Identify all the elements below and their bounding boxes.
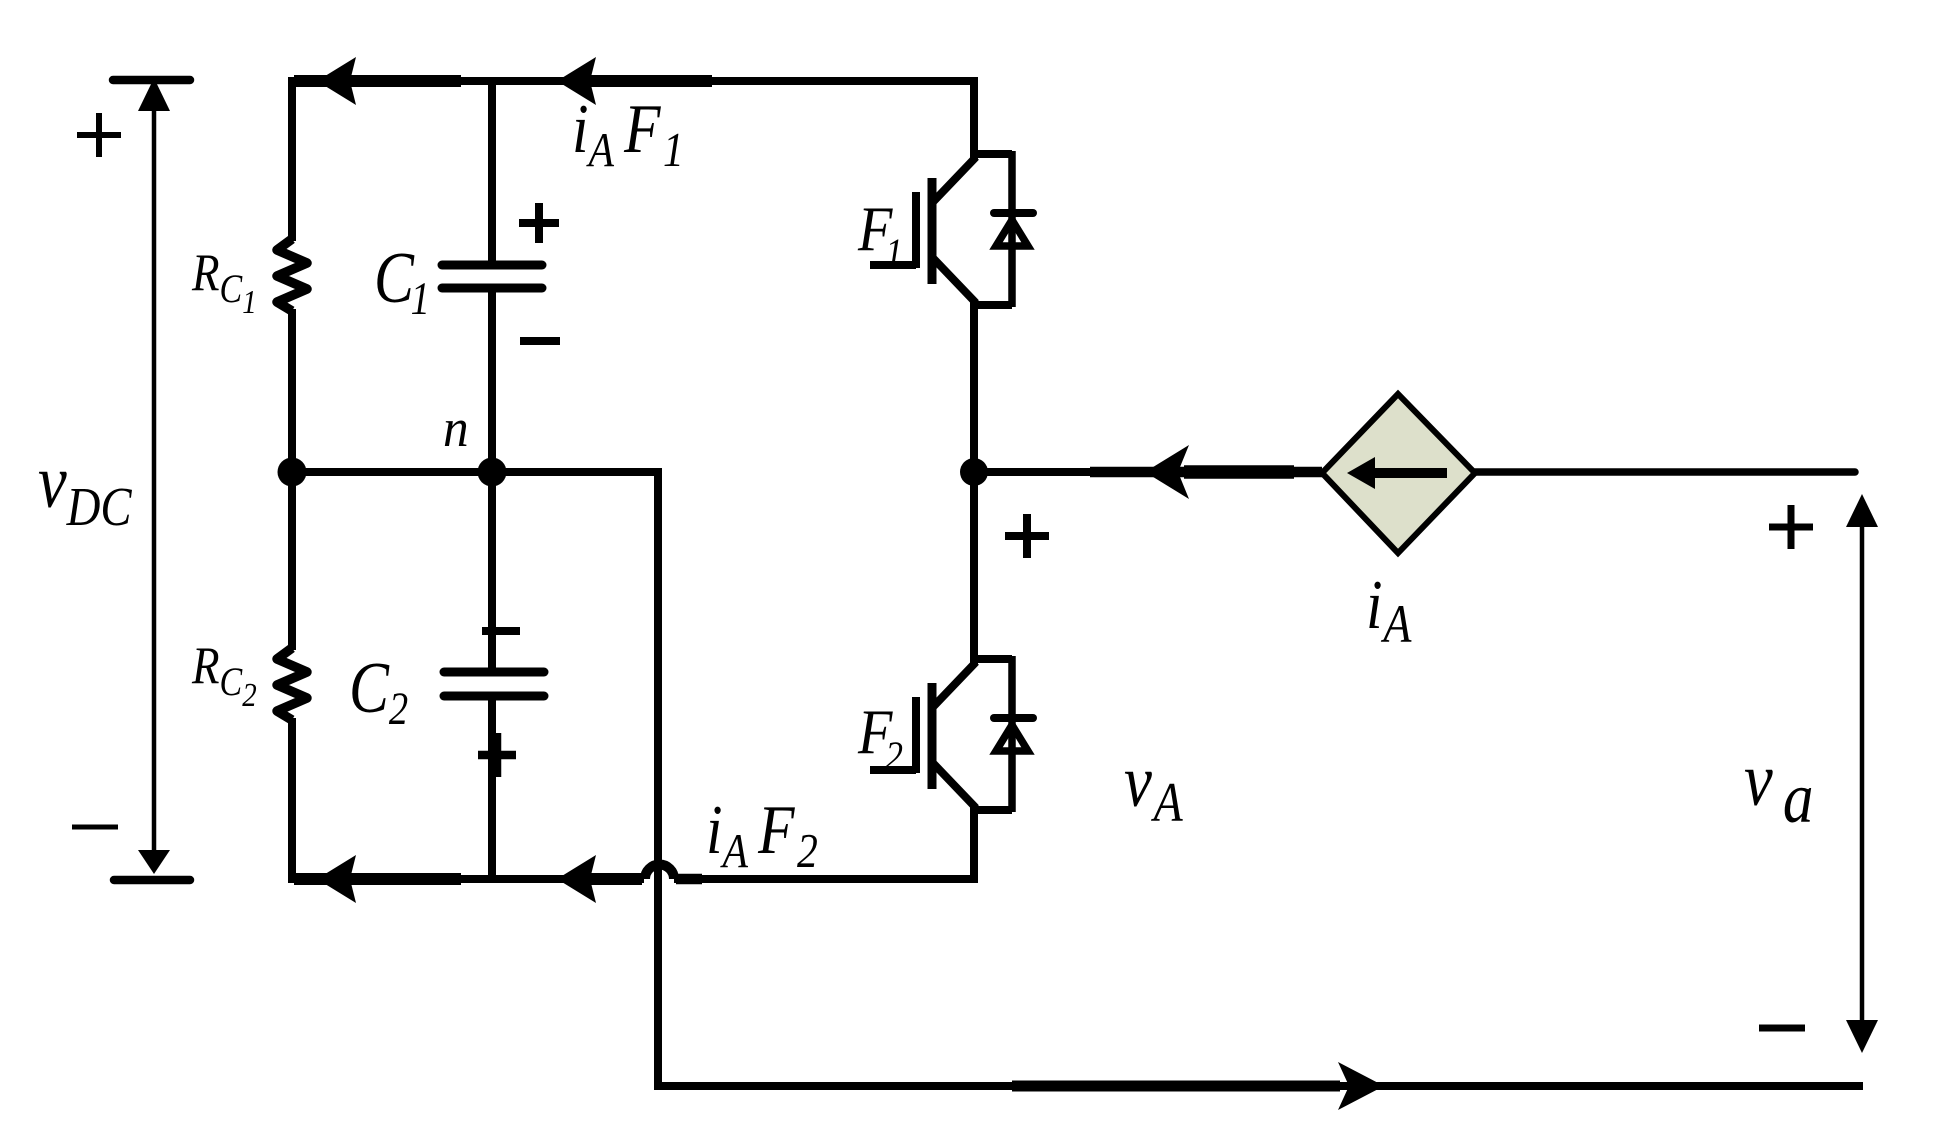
label F1 [857,194,903,276]
node output junction [960,458,988,486]
wire left branch upper segment [288,77,296,241]
wire F1 emitter to output node [970,301,978,472]
svg-text:n: n [443,399,469,458]
label iA [1366,567,1412,654]
plus label of va [1769,505,1813,549]
arrow current iAF2 mid with thick shaft [557,855,702,903]
svg-text:C1: C1 [374,239,430,325]
label iAF2 [706,792,818,878]
arrow current on bottom return wire pointing right [1012,1062,1384,1110]
svg-text:RC1: RC1 [191,243,257,321]
svg-text:vDC: vDC [38,440,132,538]
wire mid rail from node n going right then down then right to output [292,472,1863,1086]
label RC2 [191,636,257,714]
label C1 [374,239,430,325]
capacitor C1 [442,265,542,288]
wire C2 branch upper lead [488,472,496,668]
label F2 [857,697,903,779]
svg-text:vA: vA [1124,740,1183,834]
transistor Q F2 igbt [870,659,1012,810]
wire top bus from left branch to F1 collector [292,81,974,159]
arrow current iAF1 left near corner [294,57,461,105]
dependent current source diamond [1322,394,1475,553]
arrow inside current source pointing left [1347,457,1447,489]
vDC terminal bar top [113,76,190,85]
plus polarity of C1 [519,203,559,243]
capacitor C2 [444,672,544,696]
wire left branch lower segment with corner to bottom bus [292,718,644,879]
wire C2 branch lower lead [488,700,496,879]
minus label of vDC [72,825,118,830]
plus polarity of vA [1005,514,1049,558]
arrow current iAF1 mid with thick shaft [557,57,712,105]
wire output node to current source [974,468,1322,476]
va measuring arrow double headed [1846,494,1878,1053]
node n junction [478,458,507,487]
wire output node to F2 collector [970,472,978,664]
wire current source to right edge [1475,468,1855,476]
label vDC [38,440,132,538]
label C2 [349,649,408,735]
svg-text:iAF2: iAF2 [706,792,818,878]
svg-text:F1: F1 [857,194,903,276]
wire C1 branch lower lead [488,292,496,472]
label iAF1 [572,91,684,177]
resistor RC2 zigzag [277,648,307,720]
svg-text:va: va [1744,738,1813,838]
label n [443,399,469,458]
transistor Q F1 igbt [870,154,1012,305]
vDC measuring arrow double headed [138,78,170,874]
minus label of va [1759,1025,1805,1032]
wire C1 branch upper lead [488,77,496,261]
diode D1 antiparallel [994,151,1033,307]
diode D2 antiparallel [994,656,1033,812]
arrow current iAF2 left near corner [294,855,461,903]
svg-text:iA: iA [1366,567,1412,654]
svg-text:iAF1: iAF1 [572,91,684,177]
svg-text:RC2: RC2 [191,636,257,714]
node junction left mid [278,458,307,487]
wire F2 emitter to bottom bus [674,806,974,879]
label vA [1124,740,1183,834]
plus label of vDC [77,113,121,157]
wire hop over vertical [645,865,674,880]
label va [1744,738,1813,838]
wire left branch middle segment [288,309,296,650]
label RC1 [191,243,257,321]
minus polarity of C1 [520,337,560,345]
vDC terminal bar bottom [114,876,190,885]
svg-text:C2: C2 [349,649,408,735]
minus polarity of C2 on wire [482,627,520,635]
resistor RC1 zigzag [277,239,307,311]
plus polarity of C2 on wire [478,733,516,777]
svg-text:F2: F2 [857,697,903,779]
arrow current iA on output wire [1090,445,1322,499]
